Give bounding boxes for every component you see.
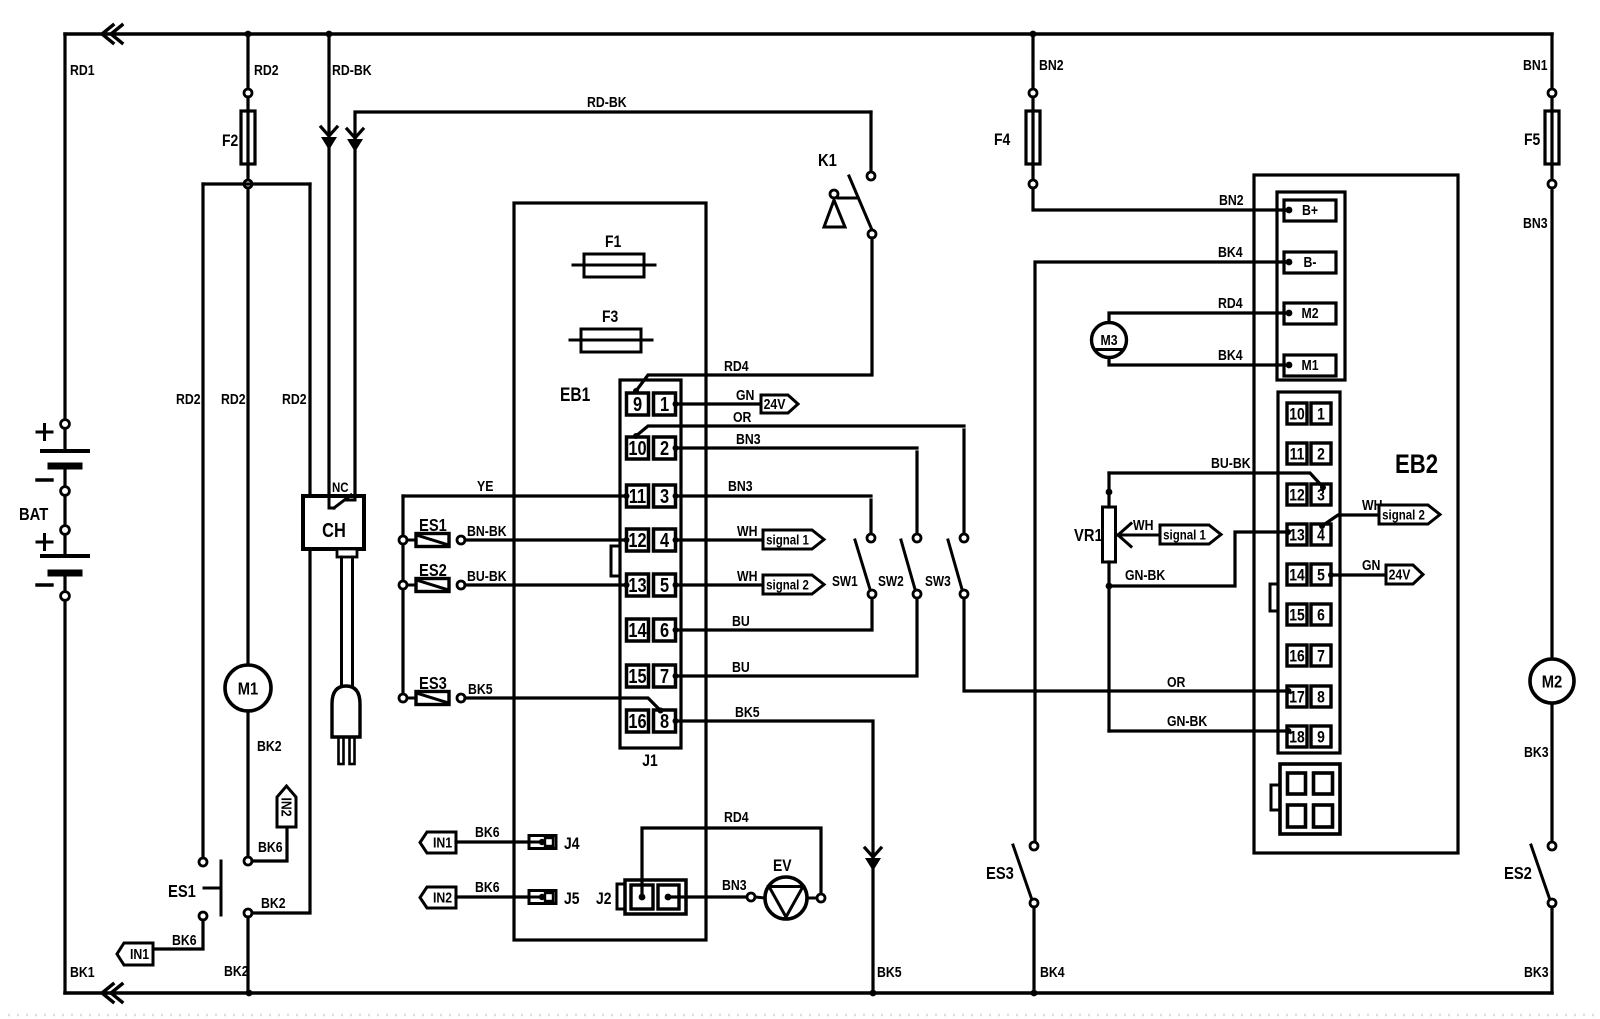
switch SW2 <box>915 452 918 534</box>
svg-text:BK4: BK4 <box>1218 244 1243 260</box>
EB2 pin 1 <box>1311 403 1331 424</box>
EB2 pin 4 <box>1311 524 1331 545</box>
J1 pin 9 <box>627 393 649 415</box>
svg-text:signal 2: signal 2 <box>1382 506 1425 522</box>
svg-text:M2: M2 <box>1542 672 1562 692</box>
svg-text:EB2: EB2 <box>1395 450 1438 480</box>
wire RD2 middle branch to M1 <box>246 188 249 663</box>
svg-text:BK2: BK2 <box>224 963 249 979</box>
svg-text:10: 10 <box>628 436 646 459</box>
node 24V (off-page arrow) <box>1386 565 1423 584</box>
svg-text:24V: 24V <box>1389 566 1412 582</box>
switch SW3 <box>962 430 965 534</box>
terminal B+ <box>1284 200 1336 221</box>
svg-text:17: 17 <box>1289 688 1304 707</box>
EB2 pin 9 <box>1311 726 1331 747</box>
wire BN3 from J1 pin 2 to SW2 <box>673 445 679 451</box>
wire GN-BK from VR1 to EB2 pin 13 <box>1109 532 1284 586</box>
wire BN-BK from ES1 to J1 pin 12 <box>465 538 624 541</box>
potentiometer VR1 <box>1103 507 1116 562</box>
svg-text:BN-BK: BN-BK <box>467 523 507 539</box>
node top bus junction RD-BK <box>326 31 333 38</box>
plug prong right <box>350 737 355 764</box>
EB2 pin 8 <box>1311 686 1331 707</box>
svg-text:BN3: BN3 <box>1523 215 1548 231</box>
EB2 pin 15 <box>1287 604 1307 625</box>
node top bus junction RD2 <box>245 31 252 38</box>
J1 pin 2 <box>654 437 676 459</box>
svg-text:BK2: BK2 <box>257 738 282 754</box>
svg-text:B+: B+ <box>1302 202 1318 218</box>
EB2 pin 11 <box>1287 443 1307 464</box>
svg-text:BU-BK: BU-BK <box>1211 455 1251 471</box>
svg-text:9: 9 <box>1317 728 1325 747</box>
svg-text:RD2: RD2 <box>221 391 246 407</box>
svg-text:BU: BU <box>732 659 750 675</box>
svg-text:EV: EV <box>773 857 792 876</box>
wire BN3 from J2 to EV <box>668 895 747 898</box>
EB2 pin 2 <box>1311 443 1331 464</box>
fuse F5 <box>1545 111 1559 164</box>
EB2 auxiliary connector <box>1280 764 1340 834</box>
thermal switch ES3 <box>399 694 407 702</box>
flow arrow on RD-BK <box>321 127 337 136</box>
J1 pin 11 <box>627 485 649 507</box>
switch ES1 (pushbutton) <box>199 858 207 866</box>
J1 pin 4 <box>654 529 676 551</box>
valve EV <box>755 897 765 898</box>
motor M2 <box>1530 659 1574 703</box>
svg-text:BK6: BK6 <box>475 879 500 895</box>
wire BK6 to IN2 <box>252 827 287 861</box>
svg-text:5: 5 <box>660 573 669 596</box>
svg-text:J5: J5 <box>564 890 580 909</box>
wire through F4 <box>1031 97 1034 180</box>
svg-text:4: 4 <box>660 528 670 551</box>
svg-text:RD1: RD1 <box>70 62 95 78</box>
svg-text:16: 16 <box>628 709 646 732</box>
svg-text:RD2: RD2 <box>254 62 279 78</box>
svg-text:EB1: EB1 <box>560 384 591 406</box>
svg-text:B-: B- <box>1304 254 1317 270</box>
svg-text:F3: F3 <box>602 308 619 327</box>
wire GN from J1 pin 1 to 24V <box>673 401 679 407</box>
EB2 pin 3 <box>1311 484 1331 505</box>
wire RD4 from K1 to EB1 pin 9 <box>636 238 872 391</box>
wire BK6 from IN2 to J5 <box>456 895 529 898</box>
svg-text:3: 3 <box>660 484 669 507</box>
fuse F2 <box>241 111 255 164</box>
wire RD2 left branch to ES1 <box>201 184 204 858</box>
J1 pin 14 <box>627 619 649 641</box>
wire through F2 <box>246 97 249 180</box>
wire BN2 from F4 to EB2 B+ <box>1033 188 1288 210</box>
wire BK5 from J1 pin 8 to ground bus <box>673 718 679 724</box>
wire RD2 right branch to CH <box>308 184 311 496</box>
fuse F4 <box>1026 111 1040 164</box>
connector circle EV left <box>747 893 755 901</box>
thermal switch ES2 <box>399 581 407 589</box>
wire RD-BK from K1 to CH <box>355 112 871 496</box>
relay contact K1 <box>869 112 872 172</box>
svg-text:8: 8 <box>1317 688 1325 707</box>
EB2 signal connector housing <box>1278 392 1340 753</box>
wire BK3 from ES2 to ground bus <box>1550 907 1553 993</box>
mains plug <box>332 686 360 737</box>
EB2 pin 5 <box>1311 564 1331 585</box>
svg-text:BK6: BK6 <box>475 824 500 840</box>
connector circle EV right <box>817 894 825 902</box>
svg-text:ES2: ES2 <box>419 561 447 581</box>
wire BU-BK from VR1 to EB2 pin 3 <box>1109 473 1322 486</box>
J1 pin 5 <box>654 574 676 596</box>
wire BK4 from EB2 B- to ES3 <box>1035 262 1288 842</box>
EB2 pin 16 <box>1287 645 1307 666</box>
CH mains cord <box>337 549 357 557</box>
EB2 power terminal block <box>1277 192 1345 380</box>
motor M1 <box>225 665 271 711</box>
battery BAT <box>61 420 70 429</box>
top supply bus wire <box>65 32 1552 36</box>
connector J5 <box>529 891 556 904</box>
bus continuation chevrons bottom <box>102 984 113 1002</box>
switch SW1 <box>869 500 872 534</box>
terminal circle below F4 <box>1029 180 1037 188</box>
svg-text:BN3: BN3 <box>736 431 761 447</box>
node 24V (off-page arrow) <box>761 395 798 413</box>
svg-text:GN-BK: GN-BK <box>1167 713 1207 729</box>
svg-text:CH: CH <box>322 518 346 541</box>
page footer separator <box>8 1014 1600 1017</box>
svg-text:ES3: ES3 <box>986 864 1014 884</box>
svg-text:M1: M1 <box>1301 357 1318 373</box>
flow arrow on BK5 <box>865 848 881 857</box>
svg-text:IN1: IN1 <box>130 946 149 962</box>
terminal circle below F2 <box>244 180 252 188</box>
label battery - (cell 1) <box>37 478 52 481</box>
wire OR from SW3 to EB2 pin 17 <box>964 598 1286 691</box>
wire ES sensor bus <box>401 496 404 698</box>
node signal 1 (off-page arrow) <box>763 530 824 549</box>
EB2 pin 6 <box>1311 604 1331 625</box>
svg-text:ES3: ES3 <box>419 674 447 694</box>
J1 pin 1 <box>654 393 676 415</box>
svg-text:J2: J2 <box>596 890 612 909</box>
VR1 wiper arrow <box>1118 524 1131 536</box>
wire RD4 from J2 to EV <box>642 828 821 894</box>
wire YE from ES bus to J1 pin 11 <box>403 494 624 497</box>
J1 pin 8 <box>654 710 676 732</box>
svg-text:F2: F2 <box>222 132 239 151</box>
wire GN-BK from VR1 to EB2 pin 18 <box>1109 729 1286 732</box>
wire BK5 from ES3 to J1 pin 8 <box>465 698 660 710</box>
svg-text:WH: WH <box>737 523 757 539</box>
svg-text:18: 18 <box>1289 728 1305 747</box>
motor M3 <box>1092 323 1127 358</box>
svg-text:OR: OR <box>1167 674 1186 690</box>
svg-text:WH: WH <box>737 568 757 584</box>
svg-text:9: 9 <box>633 392 642 415</box>
connector J4 <box>529 836 556 849</box>
J1 pin 12 <box>627 529 649 551</box>
svg-text:7: 7 <box>660 664 669 687</box>
wire BK3 from M2 to ES2 <box>1550 704 1553 842</box>
J1 pin 3 <box>654 485 676 507</box>
svg-text:GN: GN <box>736 387 754 403</box>
svg-text:BN1: BN1 <box>1523 57 1548 73</box>
svg-text:M1: M1 <box>238 679 258 699</box>
svg-text:BN2: BN2 <box>1039 57 1064 73</box>
svg-text:K1: K1 <box>818 151 837 171</box>
J1 pin 16 <box>627 710 649 732</box>
node IN1 (off-page arrow) <box>420 832 456 853</box>
svg-text:RD4: RD4 <box>724 809 749 825</box>
svg-text:RD4: RD4 <box>1218 295 1243 311</box>
svg-text:M3: M3 <box>1100 332 1117 348</box>
svg-text:14: 14 <box>1289 566 1305 585</box>
plug prong left <box>339 737 344 764</box>
aux pin C <box>1288 805 1306 827</box>
wire BN3 from J1 pin 3 to SW1 <box>673 493 679 499</box>
wire RD4 from M3 to EB2 M2 <box>1109 313 1288 322</box>
svg-text:F4: F4 <box>994 131 1011 150</box>
svg-text:BK6: BK6 <box>258 839 283 855</box>
svg-text:signal 1: signal 1 <box>1163 526 1206 542</box>
wire VR1 top <box>1107 473 1110 507</box>
wire WH from EB2 pin 4 to signal 2 <box>1322 515 1379 526</box>
terminal circle below F5 <box>1548 180 1556 188</box>
svg-text:13: 13 <box>628 573 646 596</box>
svg-text:2: 2 <box>1317 445 1325 464</box>
svg-text:6: 6 <box>660 618 669 641</box>
svg-text:BN3: BN3 <box>728 478 753 494</box>
node ground bus junction BK5 <box>870 990 877 997</box>
svg-text:6: 6 <box>1317 606 1325 625</box>
svg-text:BK5: BK5 <box>735 704 760 720</box>
EB2 auxiliary connector keying tab <box>1271 785 1280 810</box>
svg-text:5: 5 <box>1317 566 1325 585</box>
svg-text:BK5: BK5 <box>877 964 902 980</box>
terminal B- <box>1284 252 1336 273</box>
thermal switch ES1 <box>399 536 407 544</box>
connector circle BK2 node <box>244 909 252 917</box>
terminal circle above F4 <box>1029 89 1037 97</box>
aux pin A <box>1288 773 1306 794</box>
svg-text:GN-BK: GN-BK <box>1125 567 1165 583</box>
svg-text:15: 15 <box>1289 606 1305 625</box>
svg-text:WH: WH <box>1133 517 1153 533</box>
svg-text:signal 2: signal 2 <box>766 576 809 592</box>
EB2 pin 12 <box>1287 484 1307 505</box>
K1 actuator <box>830 190 838 198</box>
svg-text:BK4: BK4 <box>1218 347 1243 363</box>
svg-text:RD-BK: RD-BK <box>332 62 372 78</box>
node ground bus junction BK2 <box>246 990 253 997</box>
wire VR1 bottom <box>1107 562 1110 731</box>
switch ES3 <box>1030 842 1038 850</box>
bottom ground bus wire <box>65 991 1552 995</box>
svg-text:7: 7 <box>1317 647 1325 666</box>
svg-text:10: 10 <box>1289 405 1304 424</box>
svg-text:VR1: VR1 <box>1074 526 1103 546</box>
connector J1 keying tab <box>611 546 620 576</box>
wire RD2 from top bus to F2 <box>246 34 249 89</box>
EB2 pin 17 <box>1287 686 1307 707</box>
svg-text:YE: YE <box>477 478 493 494</box>
svg-text:16: 16 <box>1289 647 1305 666</box>
EB2 pin 13 <box>1287 524 1307 545</box>
svg-text:BK5: BK5 <box>468 681 493 697</box>
wire RD-BK from top bus to CH NC contact <box>327 34 330 496</box>
svg-text:RD4: RD4 <box>724 358 749 374</box>
svg-text:12: 12 <box>1289 486 1305 505</box>
svg-text:1: 1 <box>660 392 669 415</box>
svg-text:J4: J4 <box>564 835 580 854</box>
svg-text:IN1: IN1 <box>433 834 452 850</box>
svg-text:15: 15 <box>628 664 646 687</box>
wire BK2 node to ground bus <box>246 917 249 993</box>
svg-text:13: 13 <box>1289 526 1305 545</box>
svg-text:BK2: BK2 <box>261 895 286 911</box>
EB2 pin 14 <box>1287 564 1307 585</box>
svg-text:signal 1: signal 1 <box>766 531 809 547</box>
svg-text:11: 11 <box>1290 445 1305 464</box>
svg-text:BN3: BN3 <box>722 877 747 893</box>
svg-text:J1: J1 <box>642 752 658 771</box>
svg-text:BU-BK: BU-BK <box>467 568 507 584</box>
node IN2 (off-page arrow) <box>420 887 456 908</box>
svg-text:SW1: SW1 <box>832 573 858 589</box>
aux pin B <box>1314 773 1333 794</box>
wire RD1 battery positive rail <box>63 34 66 420</box>
wire RD2 distribution tee <box>203 182 310 185</box>
node top bus junction BN2 <box>1030 31 1037 38</box>
label battery + (cell 2) <box>37 541 52 544</box>
svg-text:GN: GN <box>1362 557 1380 573</box>
wire BK4 from M3 to EB2 M1 <box>1109 358 1288 365</box>
svg-text:RD2: RD2 <box>176 391 201 407</box>
wire BK2 from M1 to connector <box>246 711 249 857</box>
svg-text:SW2: SW2 <box>878 573 904 589</box>
fuse F3 <box>570 339 652 342</box>
terminal M2 <box>1284 303 1336 324</box>
connector J2 <box>617 884 625 909</box>
terminal circle above F5 <box>1548 89 1556 97</box>
svg-text:IN2: IN2 <box>278 797 294 816</box>
svg-text:RD-BK: RD-BK <box>587 94 627 110</box>
bus continuation chevrons top <box>102 25 113 43</box>
J1 pin 7 <box>654 665 676 687</box>
svg-text:24V: 24V <box>764 396 787 412</box>
wire BN1 from top bus to F5 <box>1550 34 1553 89</box>
wire BU-BK from ES2 to J1 pin 13 <box>465 583 624 586</box>
EB2 pin 10 <box>1287 403 1307 424</box>
svg-text:12: 12 <box>628 528 646 551</box>
svg-text:F5: F5 <box>1524 131 1541 150</box>
svg-text:ES1: ES1 <box>168 882 196 902</box>
svg-text:BK1: BK1 <box>70 964 95 980</box>
svg-text:BN2: BN2 <box>1219 192 1244 208</box>
terminal M1 <box>1284 355 1336 376</box>
EB2 pin 7 <box>1311 645 1331 666</box>
contact NC inside CH <box>329 496 334 508</box>
module EB1 enclosure <box>514 203 706 940</box>
svg-text:4: 4 <box>1317 526 1325 545</box>
label battery - (cell 2) <box>37 583 52 586</box>
J1 pin 13 <box>627 574 649 596</box>
svg-text:BU: BU <box>732 613 750 629</box>
node signal 2 (off-page arrow) <box>763 575 824 594</box>
svg-text:NC: NC <box>332 479 349 495</box>
wire BK1 battery negative rail <box>63 601 66 994</box>
svg-text:14: 14 <box>628 618 647 641</box>
flow arrow on RD-BK <box>347 129 363 138</box>
wire BK4 from ES3 to ground bus <box>1032 907 1035 993</box>
wire BK6 from IN1 to J4 <box>456 840 529 843</box>
svg-text:11: 11 <box>629 484 646 507</box>
svg-text:BK3: BK3 <box>1524 964 1549 980</box>
svg-text:1: 1 <box>1317 405 1325 424</box>
svg-text:BK6: BK6 <box>172 932 197 948</box>
wire BU from J1 pin 7 to SW2 <box>673 673 679 679</box>
node IN1 (off-page arrow) <box>117 943 153 965</box>
svg-text:BAT: BAT <box>19 505 48 525</box>
wire BN2 from top bus to F4 <box>1031 34 1034 89</box>
svg-text:BK3: BK3 <box>1524 744 1549 760</box>
node IN2 (off-page arrow) <box>277 786 296 827</box>
svg-text:RD2: RD2 <box>282 391 307 407</box>
aux pin D <box>1314 805 1333 827</box>
svg-text:2: 2 <box>660 436 669 459</box>
svg-text:OR: OR <box>733 409 752 425</box>
svg-text:SW3: SW3 <box>925 573 951 589</box>
label battery + (cell 1) <box>37 431 52 434</box>
J1 pin 15 <box>627 665 649 687</box>
svg-text:F1: F1 <box>605 233 622 252</box>
svg-text:BK4: BK4 <box>1040 964 1065 980</box>
connector J1 housing <box>620 380 681 748</box>
wire BU from J1 pin 6 to SW1 <box>673 627 679 633</box>
wire through F5 <box>1550 97 1553 180</box>
connector circle BK2/BK6 node <box>244 857 252 865</box>
battery charger CH <box>303 496 364 549</box>
wire WH from J1 pin 5 to signal 2 <box>673 582 679 588</box>
svg-text:IN2: IN2 <box>433 889 452 905</box>
switch ES2 <box>1548 842 1556 850</box>
wire BK6 from ES1 to IN1 <box>155 920 203 949</box>
wire BK2 from CH to node <box>252 549 310 913</box>
wire BN3 from F5 to M2 <box>1550 188 1553 659</box>
svg-text:ES1: ES1 <box>419 516 447 536</box>
fuse F1 <box>573 264 655 267</box>
svg-text:ES2: ES2 <box>1504 864 1532 884</box>
terminal circle above F2 <box>244 89 252 97</box>
node signal 1 (off-page arrow) <box>1160 525 1221 544</box>
wire GN from EB2 pin 5 to 24V <box>1328 572 1334 578</box>
wire WH from J1 pin 4 to signal 1 <box>673 537 679 543</box>
node ground bus junction BK4 <box>1031 990 1038 997</box>
wire OR from J1 pin 10 to SW3 <box>636 426 964 436</box>
J1 pin 6 <box>654 619 676 641</box>
node signal 2 (off-page arrow) <box>1379 505 1440 524</box>
EB2 connector keying tab <box>1270 584 1278 611</box>
svg-text:M2: M2 <box>1301 305 1318 321</box>
module EB2 enclosure <box>1254 175 1458 853</box>
EB2 pin 18 <box>1287 726 1307 747</box>
J1 pin 10 <box>627 437 649 459</box>
